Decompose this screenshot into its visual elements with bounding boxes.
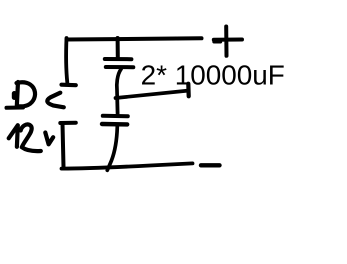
node DC negative terminal bracket tick — [60, 121, 76, 125]
node tap end tick — [186, 84, 191, 97]
capacitor C2 bottom plate — [102, 122, 127, 127]
capacitor C1 bottom plate — [106, 65, 134, 69]
capacitor C1 top lead — [116, 38, 120, 58]
wire bottom negative rail — [62, 163, 193, 168]
capacitor C2 bottom lead — [107, 126, 117, 170]
terminal plus sign — [214, 27, 242, 56]
wire top positive rail — [67, 38, 202, 39]
wire tap to measurement tick — [116, 91, 189, 98]
terminal minus sign — [201, 163, 220, 167]
capacitor C2 top lead — [115, 98, 119, 114]
label Dc — [7, 82, 64, 108]
wire left drop from top rail — [66, 38, 67, 83]
svg-text:2* 10000uF: 2* 10000uF — [141, 59, 285, 90]
capacitor C2 top plate — [103, 114, 128, 118]
wire C1 to tap junction — [117, 69, 121, 97]
node DC positive terminal tick — [62, 83, 76, 88]
label 2* 10000uF — [141, 59, 285, 90]
wire left drop from DC negative terminal to bottom rail — [63, 124, 64, 167]
label 12v — [9, 124, 54, 151]
capacitor C1 top plate — [105, 57, 132, 61]
